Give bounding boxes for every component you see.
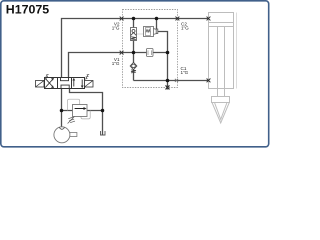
svg-text:1"G: 1"G [181, 26, 189, 31]
svg-text:1"G: 1"G [112, 61, 120, 66]
svg-text:1"G: 1"G [112, 26, 120, 31]
svg-text:1"G: 1"G [181, 70, 189, 75]
svg-text:H17075: H17075 [6, 3, 50, 17]
